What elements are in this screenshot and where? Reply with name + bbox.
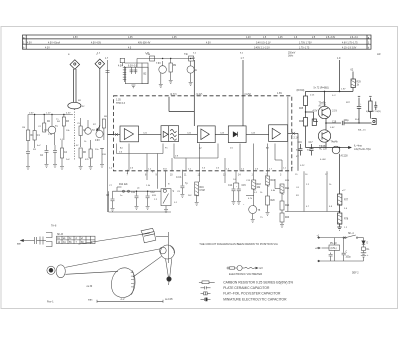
svg-text:0.6V: 0.6V bbox=[29, 113, 34, 115]
svg-text:zw: zw bbox=[57, 238, 60, 240]
svg-text:R20: R20 bbox=[271, 200, 276, 202]
svg-text:THE CIRCUIT DIAGRAM HAS BEEN D: THE CIRCUIT DIAGRAM HAS BEEN DRAWN TO PO… bbox=[199, 242, 278, 246]
svg-text:AC128: AC128 bbox=[341, 155, 349, 158]
svg-text:4.5V 4.5mA: 4.5V 4.5mA bbox=[48, 42, 60, 45]
svg-text:0.6V: 0.6V bbox=[330, 127, 335, 129]
svg-text:1kHz: 1kHz bbox=[288, 56, 294, 58]
svg-text:SK–B: SK–B bbox=[57, 234, 63, 236]
svg-text:1.35: 1.35 bbox=[172, 37, 177, 39]
svg-text:R21: R21 bbox=[285, 188, 290, 190]
svg-text:≈1.2: ≈1.2 bbox=[120, 298, 125, 301]
svg-text:C12: C12 bbox=[151, 192, 156, 194]
svg-text:5+.72 (R=68Ω): 5+.72 (R=68Ω) bbox=[314, 88, 329, 90]
svg-text:B4L–15: B4L–15 bbox=[358, 130, 366, 132]
svg-text:40V 60V 4V: 40V 60V 4V bbox=[138, 43, 151, 45]
svg-text:1.8V: 1.8V bbox=[277, 92, 282, 95]
svg-text:1.75V 1.75V: 1.75V 1.75V bbox=[299, 43, 312, 45]
svg-text:4.6V 1.75–1.75: 4.6V 1.75–1.75 bbox=[342, 43, 358, 45]
svg-text:0.5M: 0.5M bbox=[200, 190, 205, 192]
svg-text:A3: A3 bbox=[377, 52, 381, 56]
svg-text:4.5V: 4.5V bbox=[27, 43, 32, 45]
svg-text:2.5–3.4V: 2.5–3.4V bbox=[326, 37, 336, 39]
svg-text:ca 30: ca 30 bbox=[87, 286, 93, 288]
svg-text:1.35: 1.35 bbox=[128, 37, 133, 39]
svg-text:C14: C14 bbox=[228, 185, 233, 187]
svg-text:C17: C17 bbox=[309, 142, 314, 144]
svg-text:(4.2V): (4.2V) bbox=[245, 93, 252, 96]
svg-text:1M: 1M bbox=[22, 127, 25, 129]
svg-text:4.5V: 4.5V bbox=[66, 113, 71, 115]
svg-text:1.9V: 1.9V bbox=[341, 89, 346, 91]
svg-text:4.5V: 4.5V bbox=[313, 111, 318, 113]
svg-text:2.6–3.4: 2.6–3.4 bbox=[350, 37, 358, 39]
svg-text:mA(70+40–70)A: mA(70+40–70)A bbox=[354, 148, 371, 151]
svg-text:ca 0.05: ca 0.05 bbox=[165, 299, 173, 301]
svg-text:PLATE CERAMIC CAPACITOR: PLATE CERAMIC CAPACITOR bbox=[223, 286, 270, 290]
svg-text:R22: R22 bbox=[285, 205, 290, 207]
svg-text:0.4V 0.5–2.1V: 0.4V 0.5–2.1V bbox=[256, 43, 271, 45]
svg-text:(0.5L): (0.5L) bbox=[331, 248, 337, 250]
svg-text:0.45V 2.1–2.1V: 0.45V 2.1–2.1V bbox=[254, 48, 270, 50]
svg-text:R25: R25 bbox=[299, 108, 304, 110]
svg-text:1.75–1.75: 1.75–1.75 bbox=[299, 48, 310, 50]
svg-text:Pos–1: Pos–1 bbox=[47, 301, 54, 303]
svg-text:4.5V 4.5V: 4.5V 4.5V bbox=[91, 43, 102, 45]
svg-text:4.5V: 4.5V bbox=[206, 43, 211, 45]
svg-text:C.Cb: C.Cb bbox=[176, 177, 182, 179]
svg-text:100μ: 100μ bbox=[344, 120, 350, 122]
svg-text:THR 6.3: THR 6.3 bbox=[116, 102, 126, 105]
svg-text:1.4V: 1.4V bbox=[246, 37, 251, 39]
svg-text:(R=6Ω): (R=6Ω) bbox=[297, 89, 305, 92]
svg-text:FLAT–FOIL POLYESTER CAPACITOR: FLAT–FOIL POLYESTER CAPACITOR bbox=[223, 292, 281, 296]
svg-text:R19: R19 bbox=[271, 180, 276, 182]
svg-text:4.3V: 4.3V bbox=[45, 48, 50, 50]
svg-text:0.6V: 0.6V bbox=[95, 140, 100, 142]
svg-text:6(L) LEFT 8(R): 6(L) LEFT 8(R) bbox=[366, 111, 381, 113]
svg-text:4–0M: 4–0M bbox=[320, 159, 326, 161]
svg-text:(2.7V): (2.7V) bbox=[170, 93, 177, 96]
svg-text:0.2V: 0.2V bbox=[300, 165, 305, 167]
svg-text:4.15–1.9 3.8V: 4.15–1.9 3.8V bbox=[342, 48, 357, 50]
svg-text:mV: mV bbox=[259, 266, 263, 270]
svg-text:SK–4: SK–4 bbox=[348, 233, 354, 235]
svg-text:T4a/4b: T4a/4b bbox=[331, 142, 339, 144]
svg-text:T3a/Bx: T3a/Bx bbox=[319, 103, 327, 105]
svg-text:R18: R18 bbox=[257, 184, 262, 186]
svg-text:1.45: 1.45 bbox=[278, 37, 283, 39]
svg-text:AC 127: AC 127 bbox=[319, 104, 327, 107]
svg-text:4.5A: 4.5A bbox=[118, 65, 123, 68]
svg-text:100μ: 100μ bbox=[346, 257, 352, 259]
svg-text:R77: R77 bbox=[344, 200, 349, 202]
svg-text:R78: R78 bbox=[344, 219, 349, 221]
svg-text:7.6V: 7.6V bbox=[156, 63, 161, 65]
svg-text:1.2V: 1.2V bbox=[46, 113, 51, 115]
svg-text:R26: R26 bbox=[299, 121, 304, 123]
svg-text:C19: C19 bbox=[332, 121, 337, 123]
svg-text:IL–4ma: IL–4ma bbox=[354, 146, 362, 148]
svg-text:TA–8: TA–8 bbox=[51, 225, 57, 228]
svg-text:MINIATURE ELECTROLYTIC CAPACIT: MINIATURE ELECTROLYTIC CAPACITOR bbox=[223, 298, 287, 302]
svg-text:R23: R23 bbox=[285, 217, 290, 219]
svg-text:T3b/Bx: T3b/Bx bbox=[319, 146, 327, 148]
svg-text:6.3V–0.5: 6.3V–0.5 bbox=[128, 65, 138, 67]
svg-text:4.5V: 4.5V bbox=[73, 37, 78, 39]
svg-text:PU–M: PU–M bbox=[330, 243, 336, 245]
svg-text:R16: R16 bbox=[200, 187, 205, 189]
svg-text:DEF 2: DEF 2 bbox=[352, 273, 359, 275]
svg-text:C16: C16 bbox=[298, 142, 303, 144]
svg-text:R14 22k: R14 22k bbox=[119, 184, 128, 186]
svg-text:0.3V: 0.3V bbox=[80, 106, 85, 108]
svg-text:CARBON RESISTOR 0.25 SERIES: CARBON RESISTOR 0.25 SERIES E6(6W) 5% bbox=[223, 280, 293, 284]
svg-text:R29: R29 bbox=[357, 82, 362, 84]
svg-text:1.5V: 1.5V bbox=[74, 145, 79, 147]
svg-text:250mV: 250mV bbox=[288, 53, 296, 55]
svg-text:C15: C15 bbox=[242, 185, 247, 187]
svg-text:AC 128: AC 128 bbox=[319, 148, 327, 151]
svg-text:(1.2V): (1.2V) bbox=[196, 93, 203, 96]
svg-text:2.1V: 2.1V bbox=[332, 111, 337, 113]
svg-text:ELECTRONIC VOLTMETER: ELECTRONIC VOLTMETER bbox=[229, 272, 262, 276]
